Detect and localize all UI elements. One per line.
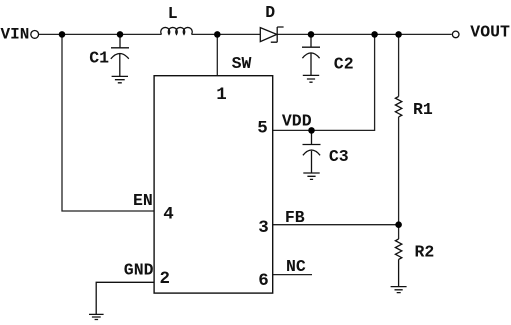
svg-text:2: 2 bbox=[160, 269, 171, 289]
svg-text:C1: C1 bbox=[89, 48, 109, 67]
svg-text:C3: C3 bbox=[329, 147, 349, 166]
svg-text:SW: SW bbox=[232, 54, 252, 73]
svg-text:NC: NC bbox=[286, 257, 306, 276]
svg-text:4: 4 bbox=[163, 204, 174, 224]
svg-text:3: 3 bbox=[258, 218, 269, 238]
svg-text:R1: R1 bbox=[413, 100, 433, 119]
svg-text:5: 5 bbox=[257, 119, 268, 139]
svg-text:C2: C2 bbox=[334, 55, 354, 74]
svg-text:EN: EN bbox=[133, 191, 153, 210]
svg-text:6: 6 bbox=[258, 271, 269, 291]
svg-text:VDD: VDD bbox=[282, 111, 312, 130]
svg-text:FB: FB bbox=[285, 208, 305, 227]
svg-text:1: 1 bbox=[216, 85, 227, 105]
svg-text:VOUT: VOUT bbox=[470, 23, 510, 42]
svg-text:VIN: VIN bbox=[1, 25, 30, 43]
svg-text:R2: R2 bbox=[415, 242, 435, 261]
svg-text:GND: GND bbox=[124, 260, 154, 279]
svg-text:L: L bbox=[168, 4, 178, 23]
svg-text:D: D bbox=[265, 3, 275, 22]
